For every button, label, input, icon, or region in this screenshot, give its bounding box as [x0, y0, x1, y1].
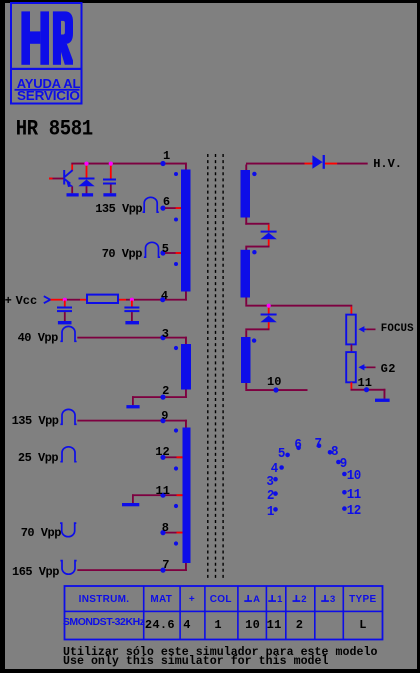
waveform symbol pin 3: [60, 326, 76, 341]
node pin 8: [160, 530, 165, 535]
table header inverted-T 2: [293, 595, 301, 602]
logo underline below AYUDA AL: [15, 89, 80, 91]
wire pin 9: [77, 420, 187, 428]
pin diagram dot 2: [273, 491, 278, 496]
winding section dot b: [174, 218, 178, 222]
pin number 1: [163, 150, 170, 162]
pin number 11 (right): [358, 377, 372, 389]
wire C3 top lead: [131, 301, 133, 307]
logo divider line: [10, 68, 83, 70]
table value 2: [296, 619, 304, 631]
pin number 12: [155, 446, 169, 458]
wire C1 bottom lead: [110, 185, 112, 194]
pin diagram number 2: [267, 489, 274, 503]
waveform symbol pin 5: [144, 242, 160, 257]
ground at capacitor C3: [125, 321, 139, 324]
transformer winding bar (pins 3-2): [181, 344, 191, 390]
ground at transistor emitter: [67, 193, 79, 196]
label 70 Vpp (pin 5): [102, 248, 142, 260]
node pin 12: [160, 455, 165, 460]
diode D2: [260, 231, 276, 240]
wire pin 3: [77, 337, 187, 345]
wire bar3R to pin 10: [245, 383, 307, 391]
pin diagram dot 8: [328, 450, 333, 455]
node junction focus branch: [267, 304, 271, 308]
table value 4: [183, 619, 191, 631]
table value 1: [214, 619, 222, 631]
node pin 4: [160, 297, 165, 302]
wire C2 bottom lead: [64, 312, 66, 321]
node pin 3: [160, 335, 165, 340]
transformer core (dashed lines): [208, 154, 223, 579]
table header inverted-T 1: [268, 595, 276, 602]
table header subscript 3: [330, 595, 335, 605]
wire pin 11 to ground: [132, 494, 183, 503]
pin number 3: [162, 328, 169, 340]
waveform symbol pin 12: [60, 447, 76, 462]
node pin 11 right: [364, 387, 369, 392]
node pin 11: [160, 493, 165, 498]
pin diagram dot 12: [342, 506, 347, 511]
footer line 2: [63, 656, 329, 668]
wire transistor emitter lead: [71, 187, 73, 194]
pin number 4: [161, 290, 168, 302]
logo text SERVICIO: [17, 89, 80, 102]
wire pin 8 stub: [165, 532, 183, 534]
pin number 6: [163, 196, 170, 208]
ground at capacitor C2: [58, 321, 72, 324]
pin diagram number 1: [267, 505, 274, 519]
label 70 Vpp (pin 8): [21, 527, 61, 539]
capacitor C3: [124, 307, 139, 313]
resistor G2 divider: [346, 352, 356, 382]
node junction D1 on rail: [84, 162, 88, 166]
pin diagram number 7: [315, 437, 322, 451]
wire top rail to pin 1: [71, 163, 187, 170]
table header COL: [210, 595, 232, 605]
node pin 9: [160, 418, 165, 423]
capacitor C1: [103, 179, 116, 185]
pin diagram number 6: [294, 438, 301, 452]
node junction C1 on rail: [109, 162, 113, 166]
table header subscript A: [253, 595, 260, 605]
ground at capacitor C1: [103, 193, 116, 196]
winding polarity dot s3: [252, 338, 256, 342]
logo text AYUDA AL: [17, 77, 80, 90]
footer line 1: [63, 647, 377, 659]
pin number 2: [162, 385, 169, 397]
wire G2 resistor to pin 11 net: [351, 382, 386, 398]
pin diagram number 11: [347, 488, 361, 502]
table header inverted-T 3: [321, 595, 329, 602]
arrow to FOCUS: [358, 326, 375, 332]
table value 11: [267, 619, 282, 631]
table header subscript 2: [301, 595, 306, 605]
node pin 6: [160, 206, 165, 211]
winding polarity dot s1: [252, 172, 256, 176]
resistor FOCUS divider: [346, 315, 356, 345]
pin diagram number 9: [340, 457, 347, 471]
diode D3: [260, 314, 276, 323]
pin diagram number 10: [347, 469, 361, 483]
pin diagram dot 1: [273, 507, 278, 512]
node pin 1: [160, 161, 165, 166]
winding section dot f: [174, 466, 178, 470]
ground at pin 11 right: [375, 399, 390, 402]
transistor Q1: [63, 170, 73, 187]
wire HV rail: [245, 163, 367, 171]
winding section dot a: [174, 172, 178, 176]
table header TYPE: [349, 595, 376, 605]
waveform symbol pin 8: [60, 523, 76, 537]
table value 24.6: [145, 619, 175, 631]
diode D4 HV rectifier: [312, 155, 325, 169]
node pin 10: [273, 387, 278, 392]
label 165 Vpp (pin 7): [12, 566, 59, 578]
ground at pin 2: [126, 405, 139, 408]
table header subscript 1: [277, 595, 282, 605]
node pin 2: [160, 395, 165, 400]
wire transistor base lead: [49, 178, 64, 180]
label 135 Vpp (pin 6): [95, 203, 142, 215]
waveform symbol pin 6: [143, 197, 159, 212]
arrow to G2: [358, 364, 375, 370]
table header inverted-T A: [244, 595, 252, 602]
pin number 5: [162, 243, 169, 255]
pin number 7: [162, 559, 169, 571]
table value SMONDST-32KHz: [63, 617, 145, 628]
pin diagram dot 11: [342, 490, 347, 495]
pin diagram number 3: [266, 475, 273, 489]
capacitor C2: [57, 307, 72, 313]
winding section dot e: [174, 428, 178, 432]
wire transistor collector lead: [71, 165, 73, 171]
wire bar2R to focus junction: [245, 298, 352, 314]
HR logo letters: [21, 11, 73, 64]
table value L: [359, 619, 367, 631]
transformer winding bar (pins 9-7): [183, 428, 191, 564]
table header +: [189, 595, 195, 605]
pin number 8: [162, 522, 169, 534]
pin number 10: [267, 376, 281, 388]
wire capacitor C1 top lead: [110, 165, 112, 179]
table value 10: [245, 619, 260, 631]
wire pin 5 stub: [165, 252, 181, 254]
pin number 9: [161, 410, 168, 422]
wire C3 bottom lead: [131, 312, 133, 321]
winding section dot c: [174, 262, 178, 266]
pin diagram dot 10: [342, 472, 347, 477]
resistor R1 on Vcc line: [87, 295, 118, 303]
pin number 11: [156, 485, 170, 497]
wire diode D1 top lead: [86, 165, 88, 178]
label 25 Vpp (pin 12): [18, 452, 58, 464]
node pin 7: [160, 568, 165, 573]
wire bar1R to D2: [245, 218, 269, 231]
table grid: [65, 586, 383, 640]
pin diagram dot 4: [279, 465, 284, 470]
pin diagram dot 5: [285, 453, 290, 458]
label 135 Vpp (pin 9): [12, 415, 59, 427]
pin diagram number 12: [347, 504, 361, 518]
wire pin 7: [77, 563, 187, 571]
label G2: [381, 363, 396, 375]
node junction C2 on Vcc line: [63, 298, 67, 302]
label H.V.: [373, 158, 402, 170]
diode D1 damper: [78, 178, 94, 187]
wire pin 6 stub: [165, 207, 181, 209]
winding section dot g: [174, 504, 178, 508]
pin diagram dot 7: [317, 443, 322, 448]
wire C2 top lead: [64, 301, 66, 307]
pin diagram dot 9: [336, 460, 341, 465]
winding polarity dot s2: [252, 250, 256, 254]
pin diagram number 4: [271, 462, 278, 476]
wire junction to FOCUS resistor: [351, 307, 353, 315]
pin diagram number 5: [278, 447, 285, 461]
node junction C3 on Vcc line: [130, 298, 134, 302]
label FOCUS: [381, 324, 414, 335]
wire D2 to bar2R: [245, 239, 269, 250]
transformer secondary winding bar 2: [241, 250, 251, 298]
winding section dot d: [174, 346, 178, 350]
label Vcc: [16, 295, 38, 307]
wire pin 12 stub: [165, 456, 183, 458]
table header INSTRUM.: [79, 595, 130, 605]
wire pin 2 to ground: [132, 390, 187, 406]
pin diagram dot 3: [273, 477, 278, 482]
ground at pin 11: [122, 503, 139, 506]
label + Vcc: [5, 295, 12, 307]
wire between FOCUS and G2 resistors: [351, 344, 353, 352]
HR logo outer box: [11, 3, 82, 104]
label 40 Vpp (pin 3): [18, 332, 58, 344]
transformer secondary winding bar 3: [241, 337, 251, 383]
node pin 5: [160, 250, 165, 255]
Vcc input arrow >: [44, 296, 51, 303]
pin diagram dot 6: [296, 446, 301, 451]
wire D1 bottom lead: [86, 186, 88, 193]
winding section dot h: [174, 541, 178, 545]
transformer primary winding bar (pins 1-4): [181, 170, 191, 292]
waveform symbol pin 9: [60, 409, 76, 424]
wire D3 to bar3R: [245, 322, 269, 337]
pin diagram number 8: [331, 445, 338, 459]
wire Vcc line: [51, 292, 187, 301]
ground at diode D1: [82, 193, 93, 196]
table header MAT: [150, 595, 172, 605]
title HR 8581: [16, 118, 93, 140]
waveform symbol pin 7: [60, 561, 76, 575]
transformer secondary winding bar 1: [241, 170, 251, 218]
